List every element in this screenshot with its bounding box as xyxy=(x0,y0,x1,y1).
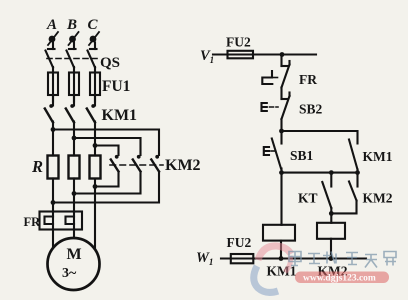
node below SB1 xyxy=(279,170,284,175)
node A terminal xyxy=(48,32,58,45)
switch QS pole 3 xyxy=(88,49,97,68)
node KM2 tap xyxy=(355,170,360,175)
wire V1 stub xyxy=(213,53,316,55)
wire C to KM1 xyxy=(94,95,96,102)
wire phase A top xyxy=(52,43,54,50)
fuse FU1 pole 1 xyxy=(48,73,58,96)
node KM2 coil to rail xyxy=(329,256,334,261)
svg-text:V1: V1 xyxy=(200,48,214,65)
wire B FR to motor xyxy=(73,230,75,239)
pushbutton SB1 (NO start) xyxy=(264,131,282,173)
wire C-top bypass to KM2 pole1 xyxy=(95,146,119,156)
node KT tap xyxy=(329,170,334,175)
svg-text:KM2: KM2 xyxy=(165,157,201,174)
node KM1 coil to rail xyxy=(279,256,284,261)
svg-text:A: A xyxy=(46,17,57,33)
coil KM2 xyxy=(317,223,345,259)
wire C below R to motor xyxy=(94,179,96,249)
svg-text:KM1: KM1 xyxy=(363,149,393,164)
svg-text:B: B xyxy=(66,17,77,33)
wire KM2 pole2 bottom to B below R xyxy=(74,172,141,194)
wire phase B KM1 to R xyxy=(73,122,75,156)
node junction B above R xyxy=(72,136,77,141)
node junction C above R xyxy=(93,143,98,148)
watermark logo swirl xyxy=(254,246,291,293)
wire B-top bypass to KM2 pole2 xyxy=(74,138,141,155)
svg-text:www.dgjs123.com: www.dgjs123.com xyxy=(303,274,376,284)
switch QS pole 1 xyxy=(46,49,55,68)
wire phase A KM1 to R xyxy=(52,122,54,156)
contactor KM2 pole 3 xyxy=(151,155,159,172)
wire A to FU1 xyxy=(52,67,54,73)
watermark text row xyxy=(289,252,396,268)
wire KM2 pole3 bottom to A below R xyxy=(53,172,159,203)
resistor R phase B xyxy=(69,156,80,179)
wire B below R to FR xyxy=(73,179,75,213)
motor M circle xyxy=(48,238,100,290)
svg-text:3~: 3~ xyxy=(62,266,77,281)
contact KT (NO time) xyxy=(322,173,331,223)
resistor R phase C xyxy=(90,156,101,179)
svg-text:KM1: KM1 xyxy=(102,107,138,124)
resistor R phase A xyxy=(48,156,59,179)
FR heater element phase A xyxy=(45,212,54,230)
node junction B below R xyxy=(72,191,77,196)
wire C to FU1 xyxy=(94,67,96,73)
svg-text:M: M xyxy=(67,246,82,263)
wire B to KM1 xyxy=(73,95,75,102)
svg-text:FU2: FU2 xyxy=(227,235,252,250)
contactor KM2 pole 2 xyxy=(133,155,141,172)
FR heater element phase B xyxy=(66,212,75,230)
KM2 linkage dashed xyxy=(110,164,163,166)
labels xyxy=(46,17,99,33)
fuse FU1 pole 3 xyxy=(90,73,100,96)
thermal contact FR (NC) xyxy=(262,55,289,100)
watermark url band xyxy=(295,272,389,284)
contactor KM2 pole 1 xyxy=(111,155,119,172)
contactor KM1 main pole 1 xyxy=(45,95,53,123)
wire W1 bottom rail xyxy=(221,257,366,259)
wire A below R to FR xyxy=(52,179,54,213)
wire phase C top xyxy=(94,43,96,50)
fuse FU2 bottom xyxy=(231,254,254,263)
wire A FR to motor xyxy=(52,230,54,248)
node KT/KM2 join xyxy=(329,211,334,216)
svg-text:W1: W1 xyxy=(196,250,213,267)
svg-text:KT: KT xyxy=(298,191,318,206)
svg-text:KM2: KM2 xyxy=(363,191,393,206)
contact KM1 aux (NO) xyxy=(349,140,358,173)
wire B to FU1 xyxy=(73,67,75,73)
contactor KM1 main pole 3 xyxy=(87,95,95,123)
svg-text:FU1: FU1 xyxy=(102,78,130,95)
thermal relay FR heater box xyxy=(40,212,83,230)
svg-text:FR: FR xyxy=(24,215,42,229)
svg-text:SB1: SB1 xyxy=(290,148,314,163)
wire KM2 pole1 bottom to C below R xyxy=(95,172,119,187)
node C terminal xyxy=(89,32,99,45)
QS linkage dashed xyxy=(47,58,99,60)
svg-text:R: R xyxy=(31,157,43,176)
wire phase C KM1 to R xyxy=(94,122,96,156)
svg-text:FR: FR xyxy=(299,72,317,87)
fuse FU2 top xyxy=(228,51,254,59)
node B terminal xyxy=(69,32,79,45)
node junction A below R xyxy=(51,200,56,205)
wire parallel branch rail xyxy=(282,172,358,174)
node junction A above R xyxy=(51,127,56,132)
node junction C below R xyxy=(93,184,98,189)
contact KM2 aux (NO) xyxy=(331,173,357,214)
contactor KM1 main pole 2 xyxy=(66,95,74,123)
svg-text:FU2: FU2 xyxy=(226,35,251,50)
wire A to KM1 xyxy=(52,95,54,102)
wire phase B top xyxy=(73,43,75,50)
wire to KM1 aux branch xyxy=(282,131,358,144)
wire A-top bypass to KM2 pole3 xyxy=(53,130,159,156)
coil KM1 xyxy=(263,173,295,259)
svg-text:SB2: SB2 xyxy=(299,102,323,117)
fuse FU1 pole 2 xyxy=(69,73,79,96)
node below SB2 xyxy=(279,129,284,134)
pushbutton SB2 (NC stop) xyxy=(262,93,290,132)
svg-text:QS: QS xyxy=(100,55,120,71)
node top rail junction xyxy=(280,52,285,57)
svg-text:C: C xyxy=(88,17,99,33)
switch QS pole 2 xyxy=(67,49,76,68)
